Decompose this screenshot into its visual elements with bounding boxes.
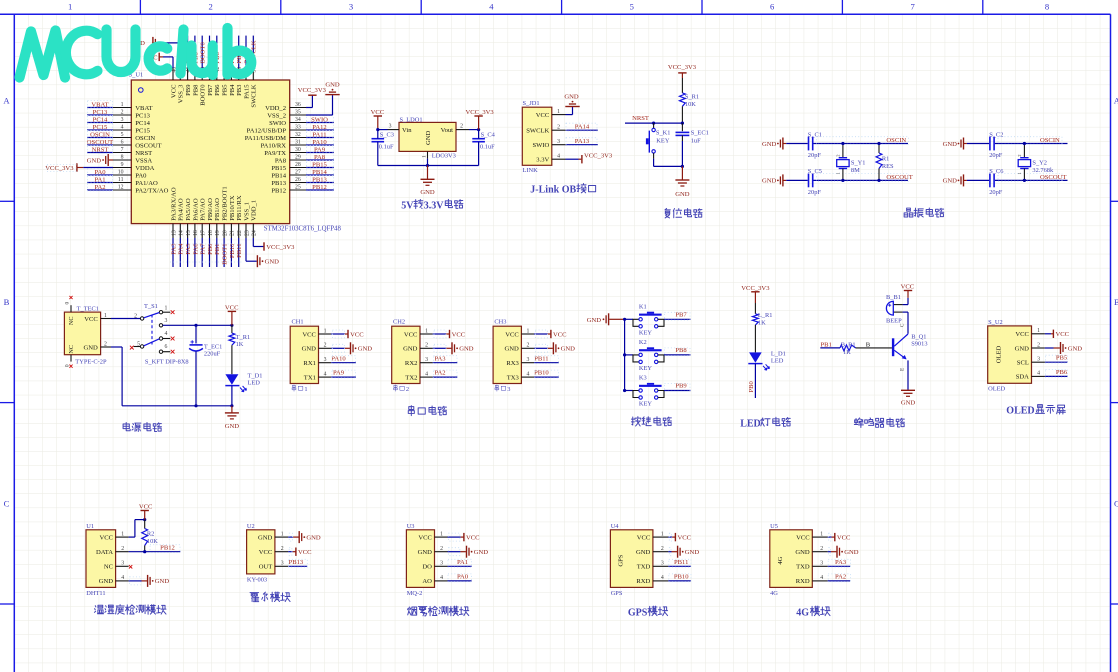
- svg-text:GND: GND: [587, 317, 602, 324]
- svg-text:K2: K2: [639, 339, 647, 346]
- svg-text:4: 4: [557, 154, 560, 160]
- svg-text:PA3/RX/AO: PA3/RX/AO: [170, 187, 177, 221]
- svg-text:S_U2: S_U2: [988, 319, 1003, 326]
- svg-text:GND: GND: [685, 549, 700, 556]
- svg-text:GND: GND: [418, 549, 433, 556]
- svg-text:CH3: CH3: [494, 319, 506, 326]
- svg-text:LED: LED: [248, 380, 261, 387]
- svg-text:GND: GND: [87, 157, 102, 164]
- svg-text:GND: GND: [844, 549, 859, 556]
- svg-text:NRST: NRST: [632, 115, 649, 122]
- svg-text:VCC_3V3: VCC_3V3: [45, 165, 74, 172]
- svg-text:3: 3: [425, 357, 428, 363]
- svg-text:U5: U5: [770, 523, 778, 530]
- svg-text:GND: GND: [474, 549, 489, 556]
- svg-text:VCC: VCC: [225, 305, 239, 312]
- svg-text:GND: GND: [358, 346, 373, 353]
- svg-text:PB13: PB13: [312, 176, 327, 183]
- svg-text:RES: RES: [882, 163, 894, 170]
- svg-text:9: 9: [121, 162, 124, 168]
- svg-text:4: 4: [1037, 371, 1040, 377]
- svg-text:VCC: VCC: [170, 84, 177, 98]
- svg-text:20: 20: [222, 230, 228, 236]
- svg-text:19: 19: [215, 230, 221, 236]
- svg-text:DHT11: DHT11: [86, 590, 105, 597]
- svg-text:BEEP: BEEP: [886, 317, 902, 324]
- svg-text:20pF: 20pF: [808, 189, 822, 196]
- svg-text:OLED: OLED: [996, 345, 1003, 363]
- svg-text:PB1/AO: PB1/AO: [214, 198, 221, 221]
- svg-text:PB5: PB5: [222, 84, 229, 96]
- svg-text:24: 24: [252, 230, 258, 236]
- svg-text:A: A: [1114, 96, 1118, 106]
- svg-text:S_EC1: S_EC1: [691, 130, 709, 137]
- svg-text:BOOT1: BOOT1: [222, 244, 229, 265]
- svg-text:RX1: RX1: [303, 360, 315, 367]
- svg-text:S_KFT DIP-8X8: S_KFT DIP-8X8: [145, 359, 189, 366]
- svg-text:25: 25: [295, 185, 301, 191]
- svg-text:S_JD1: S_JD1: [523, 100, 540, 107]
- svg-text:T_EC1: T_EC1: [204, 343, 222, 350]
- svg-text:PB0: PB0: [748, 380, 755, 392]
- svg-text:12: 12: [118, 185, 124, 191]
- svg-text:RXD: RXD: [796, 578, 810, 585]
- svg-text:28: 28: [295, 162, 301, 168]
- svg-text:B: B: [1114, 297, 1118, 307]
- svg-text:PB10: PB10: [229, 243, 236, 258]
- svg-text:GND: GND: [325, 82, 340, 89]
- svg-text:16: 16: [193, 230, 199, 236]
- svg-text:3: 3: [165, 318, 168, 324]
- svg-text:3: 3: [281, 561, 284, 567]
- svg-text:SDA: SDA: [1016, 374, 1029, 381]
- svg-text:OSCOUT: OSCOUT: [87, 139, 113, 146]
- svg-text:S_LDO1: S_LDO1: [400, 117, 423, 124]
- svg-text:1K: 1K: [236, 341, 244, 348]
- svg-text:VCC: VCC: [837, 534, 851, 541]
- svg-text:PB11: PB11: [534, 355, 548, 362]
- svg-text:4: 4: [440, 575, 443, 581]
- svg-text:GND: GND: [459, 346, 474, 353]
- svg-text:3.3V: 3.3V: [536, 157, 549, 164]
- svg-text:S_C4: S_C4: [481, 131, 496, 138]
- svg-text:17: 17: [201, 230, 207, 236]
- svg-text:0.1uF: 0.1uF: [480, 144, 495, 151]
- svg-text:PA7: PA7: [200, 243, 207, 255]
- svg-text:GND: GND: [505, 346, 520, 353]
- svg-text:PC15: PC15: [93, 124, 108, 131]
- svg-text:2: 2: [557, 125, 560, 131]
- svg-text:S_C3: S_C3: [380, 131, 394, 138]
- svg-text:5V: 5V: [401, 200, 414, 211]
- svg-text:VSS_1: VSS_1: [243, 202, 250, 221]
- svg-text:TX2: TX2: [405, 374, 417, 381]
- svg-text:3: 3: [1037, 357, 1040, 363]
- svg-text:VCC: VCC: [418, 534, 432, 541]
- svg-text:T_D1: T_D1: [248, 373, 263, 380]
- svg-text:PB15: PB15: [312, 161, 327, 168]
- svg-text:S_Y2: S_Y2: [1032, 159, 1047, 166]
- svg-text:4: 4: [324, 371, 327, 377]
- svg-text:PA5/AO: PA5/AO: [185, 198, 192, 221]
- svg-text:GND: GND: [561, 346, 576, 353]
- svg-text:PB15: PB15: [271, 165, 286, 172]
- svg-text:1K: 1K: [843, 349, 851, 356]
- svg-text:GND: GND: [943, 178, 958, 185]
- svg-text:SWIO: SWIO: [532, 142, 549, 149]
- svg-text:1: 1: [304, 386, 307, 393]
- svg-text:CH1: CH1: [292, 319, 304, 326]
- svg-text:OSCIN: OSCIN: [1040, 137, 1060, 144]
- svg-text:3: 3: [440, 561, 443, 567]
- svg-text:VCC: VCC: [796, 534, 810, 541]
- svg-text:SCL: SCL: [1017, 360, 1029, 367]
- svg-text:1: 1: [661, 531, 664, 537]
- svg-text:C: C: [1114, 498, 1118, 508]
- svg-text:VCC: VCC: [302, 331, 316, 338]
- svg-text:GND: GND: [762, 141, 777, 148]
- svg-text:18: 18: [208, 230, 214, 236]
- svg-text:GND: GND: [155, 578, 170, 585]
- svg-text:OUT: OUT: [259, 564, 273, 571]
- svg-text:VCC: VCC: [536, 112, 550, 119]
- svg-text:2: 2: [121, 546, 124, 552]
- svg-text:4: 4: [121, 125, 124, 131]
- svg-text:PA6: PA6: [192, 243, 199, 255]
- svg-text:1K: 1K: [758, 319, 766, 326]
- svg-text:PB14: PB14: [271, 172, 286, 179]
- svg-text:TX3: TX3: [507, 374, 520, 381]
- svg-text:J-Link OB: J-Link OB: [530, 185, 576, 196]
- svg-text:PB1: PB1: [214, 244, 221, 255]
- svg-text:KEY: KEY: [639, 365, 653, 372]
- svg-text:LDO3V3: LDO3V3: [432, 152, 456, 159]
- svg-text:A: A: [3, 96, 10, 106]
- svg-text:VDD_1: VDD_1: [251, 200, 258, 221]
- svg-text:GND: GND: [420, 189, 435, 196]
- svg-text:1: 1: [421, 155, 427, 158]
- svg-text:PA11/USB/DM: PA11/USB/DM: [245, 135, 286, 142]
- svg-text:27: 27: [295, 170, 301, 176]
- svg-text:S_C2: S_C2: [989, 131, 1003, 138]
- svg-text:3: 3: [526, 357, 529, 363]
- svg-text:2: 2: [460, 124, 463, 130]
- svg-text:2: 2: [208, 2, 212, 12]
- svg-text:2: 2: [104, 341, 107, 347]
- svg-text:PA1/AO: PA1/AO: [135, 180, 158, 187]
- svg-text:NC: NC: [68, 316, 75, 325]
- svg-text:4G: 4G: [796, 607, 809, 618]
- svg-text:S9013: S9013: [911, 341, 927, 348]
- svg-text:PA10: PA10: [331, 355, 346, 362]
- svg-text:2: 2: [526, 343, 529, 349]
- svg-text:PA4/AO: PA4/AO: [178, 198, 185, 221]
- svg-text:34: 34: [295, 117, 301, 123]
- svg-text:U4: U4: [611, 523, 620, 530]
- svg-text:3: 3: [661, 561, 664, 567]
- svg-text:B_R1: B_R1: [841, 341, 856, 348]
- svg-text:7: 7: [121, 147, 124, 153]
- svg-text:PB9: PB9: [185, 84, 192, 96]
- svg-text:5: 5: [121, 132, 124, 138]
- svg-text:4: 4: [526, 371, 529, 377]
- svg-text:PB0/AO: PB0/AO: [207, 198, 214, 221]
- svg-text:PB2/BOOT1: PB2/BOOT1: [222, 186, 229, 220]
- svg-text:PC13: PC13: [135, 112, 150, 119]
- svg-text:GND: GND: [99, 578, 114, 585]
- svg-text:GND: GND: [564, 93, 579, 100]
- svg-text:VSSA: VSSA: [135, 157, 152, 164]
- svg-text:VCC_3V3: VCC_3V3: [298, 87, 327, 94]
- svg-text:PA2: PA2: [434, 370, 445, 377]
- svg-text:2: 2: [281, 546, 284, 552]
- svg-text:3: 3: [820, 561, 823, 567]
- svg-text:4: 4: [121, 575, 124, 581]
- svg-text:PA3: PA3: [170, 243, 177, 255]
- svg-text:VCC: VCC: [452, 331, 466, 338]
- svg-text:CH2: CH2: [393, 319, 405, 326]
- svg-text:VCC_3V3: VCC_3V3: [741, 285, 770, 292]
- svg-text:PC13: PC13: [93, 109, 108, 116]
- svg-text:PB11/RX: PB11/RX: [236, 195, 243, 221]
- svg-text:2: 2: [661, 546, 664, 552]
- svg-text:PA9: PA9: [314, 146, 326, 153]
- svg-text:1: 1: [425, 328, 428, 334]
- svg-text:1: 1: [121, 102, 124, 108]
- svg-text:35: 35: [295, 110, 301, 116]
- svg-text:C: C: [899, 323, 905, 327]
- svg-text:32.768k: 32.768k: [1032, 167, 1054, 174]
- svg-text:PB14: PB14: [312, 169, 327, 176]
- svg-text:20pF: 20pF: [989, 189, 1003, 196]
- svg-text:PB6: PB6: [214, 84, 221, 96]
- svg-text:8: 8: [1045, 2, 1049, 12]
- svg-text:GND: GND: [636, 549, 651, 556]
- svg-text:1: 1: [557, 109, 560, 115]
- svg-text:PC14: PC14: [93, 116, 108, 123]
- svg-text:PB12: PB12: [160, 545, 175, 552]
- svg-text:1: 1: [1037, 328, 1040, 334]
- svg-text:26: 26: [295, 177, 301, 183]
- svg-text:GPS: GPS: [617, 554, 624, 566]
- svg-text:VCC: VCC: [901, 283, 915, 290]
- svg-text:K3: K3: [639, 375, 647, 382]
- svg-text:SWCLK: SWCLK: [251, 84, 258, 107]
- svg-text:VCC: VCC: [371, 109, 385, 116]
- svg-text:6: 6: [165, 344, 168, 350]
- svg-text:GPS: GPS: [611, 590, 623, 597]
- svg-text:30: 30: [295, 147, 301, 153]
- svg-text:8: 8: [121, 155, 124, 161]
- svg-text:PB12: PB12: [312, 184, 327, 191]
- svg-text:7: 7: [910, 2, 915, 12]
- svg-text:4: 4: [165, 331, 168, 337]
- svg-text:1: 1: [820, 531, 823, 537]
- svg-text:1: 1: [104, 313, 107, 319]
- svg-text:PA0: PA0: [94, 169, 106, 176]
- svg-text:1: 1: [121, 531, 124, 537]
- svg-text:PC14: PC14: [135, 120, 150, 127]
- svg-text:TX1: TX1: [304, 374, 316, 381]
- svg-text:LED: LED: [771, 358, 784, 365]
- svg-text:GPS: GPS: [628, 607, 648, 618]
- svg-text:10K: 10K: [685, 101, 696, 108]
- svg-text:AO: AO: [422, 578, 432, 585]
- svg-text:VCC: VCC: [298, 549, 312, 556]
- svg-text:220uF: 220uF: [204, 351, 221, 358]
- svg-text:GND: GND: [762, 178, 777, 185]
- svg-text:3: 3: [121, 561, 124, 567]
- svg-text:31: 31: [295, 140, 301, 146]
- svg-text:2: 2: [134, 314, 137, 320]
- svg-text:32: 32: [295, 132, 301, 138]
- svg-text:VCC: VCC: [1056, 331, 1070, 338]
- svg-text:VCC_3V3: VCC_3V3: [668, 64, 697, 71]
- svg-text:13: 13: [171, 230, 177, 236]
- svg-text:Vin: Vin: [402, 127, 412, 134]
- svg-text:3: 3: [507, 386, 510, 393]
- svg-text:K1: K1: [639, 303, 647, 310]
- svg-text:GND: GND: [403, 346, 418, 353]
- svg-text:PA9/TX: PA9/TX: [264, 150, 286, 157]
- svg-text:VCC_3V3: VCC_3V3: [465, 109, 494, 116]
- svg-text:TYPE-C-2P: TYPE-C-2P: [75, 358, 107, 365]
- svg-text:SWCLK: SWCLK: [526, 128, 549, 135]
- svg-text:S_C1: S_C1: [808, 131, 822, 138]
- svg-text:GND: GND: [225, 423, 240, 430]
- svg-text:PB4: PB4: [229, 84, 236, 96]
- svg-text:33: 33: [295, 125, 301, 131]
- svg-text:GND: GND: [306, 534, 321, 541]
- svg-text:PB13: PB13: [289, 559, 304, 566]
- svg-text:PA11: PA11: [312, 131, 326, 138]
- svg-text:NC: NC: [104, 564, 114, 571]
- svg-text:NC: NC: [68, 345, 75, 354]
- svg-text:VSS_2: VSS_2: [267, 112, 286, 119]
- svg-text:3.3V: 3.3V: [424, 200, 445, 211]
- svg-text:PA12: PA12: [312, 124, 326, 131]
- svg-text:RX2: RX2: [405, 360, 417, 367]
- svg-text:BOOT0: BOOT0: [200, 84, 207, 106]
- svg-text:GND: GND: [84, 344, 99, 351]
- svg-text:2: 2: [121, 110, 124, 116]
- svg-text:GND: GND: [425, 131, 432, 146]
- svg-text:KEY: KEY: [639, 329, 653, 336]
- svg-text:GND: GND: [943, 141, 958, 148]
- svg-text:20pF: 20pF: [808, 152, 822, 159]
- svg-text:U3: U3: [407, 523, 415, 530]
- svg-text:MQ-2: MQ-2: [407, 590, 423, 597]
- svg-text:OSCIN: OSCIN: [135, 135, 155, 142]
- svg-text:E: E: [899, 368, 905, 371]
- svg-text:PA3: PA3: [835, 559, 847, 566]
- svg-text:PA1: PA1: [94, 176, 105, 183]
- svg-text:29: 29: [295, 155, 301, 161]
- svg-text:PB10/TX: PB10/TX: [229, 195, 236, 221]
- svg-text:22: 22: [237, 230, 243, 236]
- svg-text:T_TEC1: T_TEC1: [77, 306, 99, 313]
- svg-text:S_C5: S_C5: [808, 168, 822, 175]
- svg-text:PA2/TX/AO: PA2/TX/AO: [135, 187, 168, 194]
- svg-text:GND: GND: [901, 400, 916, 407]
- svg-text:VCC: VCC: [678, 534, 692, 541]
- svg-text:VCC: VCC: [139, 503, 153, 510]
- svg-text:VCC: VCC: [637, 534, 651, 541]
- svg-text:3: 3: [557, 139, 560, 145]
- svg-text:PB0: PB0: [207, 243, 214, 255]
- svg-text:OSCIN: OSCIN: [90, 131, 110, 138]
- svg-text:3: 3: [324, 357, 327, 363]
- svg-text:4G: 4G: [770, 590, 778, 597]
- svg-text:VCC: VCC: [350, 331, 364, 338]
- svg-text:U1: U1: [86, 523, 94, 530]
- svg-text:PB5: PB5: [1056, 355, 1068, 362]
- svg-text:PA3: PA3: [434, 355, 446, 362]
- svg-text:1uF: 1uF: [691, 137, 701, 144]
- svg-text:4: 4: [425, 371, 428, 377]
- svg-text:1: 1: [324, 328, 327, 334]
- svg-text:10: 10: [118, 170, 124, 176]
- svg-text:VDDA: VDDA: [135, 165, 154, 172]
- svg-text:B_Q1: B_Q1: [911, 333, 926, 340]
- svg-text:PB11: PB11: [236, 244, 243, 258]
- svg-text:4G: 4G: [777, 556, 784, 564]
- svg-text:6: 6: [121, 140, 124, 146]
- svg-text:NRST: NRST: [92, 146, 109, 153]
- svg-text:GND: GND: [1068, 345, 1083, 352]
- svg-text:R1: R1: [882, 156, 889, 163]
- svg-text:2: 2: [820, 546, 823, 552]
- svg-text:S_Y1: S_Y1: [851, 159, 866, 166]
- svg-text:10K: 10K: [147, 538, 158, 545]
- svg-text:GND: GND: [265, 259, 280, 266]
- svg-text:5: 5: [630, 2, 634, 12]
- svg-text:GND: GND: [675, 191, 690, 198]
- svg-text:21: 21: [230, 230, 236, 236]
- svg-text:PA12/USB/DP: PA12/USB/DP: [247, 127, 287, 134]
- svg-text:RXD: RXD: [636, 578, 650, 585]
- svg-text:VCC: VCC: [84, 316, 98, 323]
- svg-text:OLED: OLED: [1006, 406, 1034, 417]
- svg-text:B: B: [4, 297, 10, 307]
- svg-text:R2: R2: [147, 531, 154, 538]
- svg-text:LED: LED: [740, 418, 761, 429]
- svg-text:U2: U2: [247, 523, 255, 530]
- svg-text:3: 3: [121, 117, 124, 123]
- svg-text:PA7/AO: PA7/AO: [200, 198, 207, 221]
- svg-text:PB8: PB8: [192, 84, 199, 96]
- svg-text:VCC_3V3: VCC_3V3: [266, 244, 295, 251]
- svg-text:PA9: PA9: [333, 370, 345, 377]
- svg-text:PA1: PA1: [457, 559, 468, 566]
- svg-text:1: 1: [165, 306, 168, 312]
- svg-text:B: B: [866, 341, 871, 348]
- svg-text:S_C6: S_C6: [989, 168, 1003, 175]
- svg-text:VSS_3: VSS_3: [178, 84, 185, 103]
- svg-text:VCC: VCC: [505, 331, 519, 338]
- svg-text:PA10/RX: PA10/RX: [261, 142, 287, 149]
- svg-text:S_K1: S_K1: [656, 130, 671, 137]
- svg-text:VDD_2: VDD_2: [265, 105, 286, 112]
- svg-text:BOOT0: BOOT0: [200, 42, 207, 64]
- svg-text:8M: 8M: [851, 167, 860, 174]
- svg-text:VCC: VCC: [99, 534, 113, 541]
- svg-text:PB10: PB10: [534, 370, 549, 377]
- svg-text:OLED: OLED: [988, 386, 1005, 393]
- svg-text:4: 4: [661, 575, 664, 581]
- svg-text:OSCIN: OSCIN: [886, 137, 906, 144]
- svg-text:PA6/AO: PA6/AO: [192, 198, 199, 221]
